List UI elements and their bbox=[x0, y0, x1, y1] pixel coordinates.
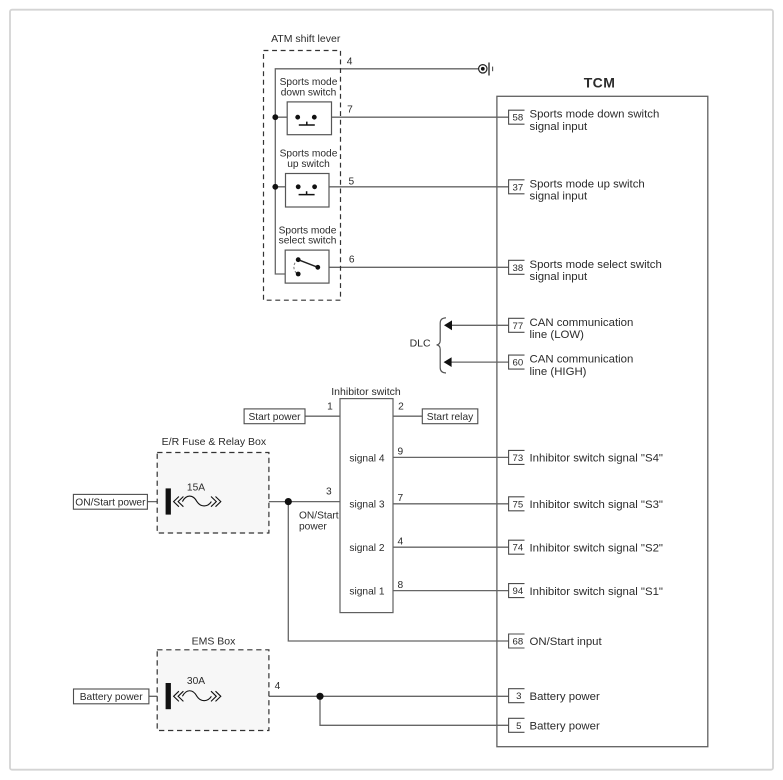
svg-text:3: 3 bbox=[326, 487, 332, 498]
svg-text:38: 38 bbox=[513, 263, 524, 274]
svg-text:CAN communication: CAN communication bbox=[530, 317, 634, 329]
svg-text:Sports mode select switch: Sports mode select switch bbox=[530, 259, 662, 271]
svg-text:signal 4: signal 4 bbox=[349, 453, 384, 464]
svg-text:Battery power: Battery power bbox=[80, 692, 143, 703]
svg-text:68: 68 bbox=[513, 637, 524, 648]
svg-text:2: 2 bbox=[398, 402, 404, 413]
svg-text:Inhibitor switch signal "S4": Inhibitor switch signal "S4" bbox=[530, 453, 663, 465]
svg-text:8: 8 bbox=[398, 580, 404, 591]
svg-text:line (LOW): line (LOW) bbox=[530, 329, 585, 341]
svg-text:Inhibitor switch: Inhibitor switch bbox=[331, 386, 401, 398]
svg-text:3: 3 bbox=[516, 691, 521, 702]
svg-text:down switch: down switch bbox=[281, 88, 337, 99]
svg-text:Sports mode: Sports mode bbox=[279, 225, 337, 236]
svg-text:9: 9 bbox=[398, 447, 404, 458]
svg-text:CAN communication: CAN communication bbox=[530, 354, 634, 366]
svg-text:ON/Start: ON/Start bbox=[299, 511, 339, 522]
svg-text:Inhibitor switch signal "S1": Inhibitor switch signal "S1" bbox=[530, 586, 663, 598]
svg-text:Sports mode: Sports mode bbox=[280, 149, 338, 160]
svg-text:30A: 30A bbox=[187, 676, 205, 687]
svg-text:Start relay: Start relay bbox=[427, 412, 474, 423]
svg-text:94: 94 bbox=[513, 586, 524, 597]
svg-text:4: 4 bbox=[347, 56, 353, 67]
svg-text:37: 37 bbox=[513, 182, 524, 193]
svg-text:Sports mode down switch: Sports mode down switch bbox=[530, 109, 660, 121]
svg-text:up switch: up switch bbox=[287, 159, 329, 170]
svg-text:60: 60 bbox=[513, 358, 524, 369]
svg-text:Sports mode up switch: Sports mode up switch bbox=[530, 178, 645, 190]
svg-text:58: 58 bbox=[513, 113, 524, 124]
svg-text:Start power: Start power bbox=[248, 412, 301, 423]
svg-text:ON/Start input: ON/Start input bbox=[530, 636, 603, 648]
svg-text:signal 2: signal 2 bbox=[349, 543, 384, 554]
svg-text:ATM shift lever: ATM shift lever bbox=[271, 33, 341, 45]
svg-text:DLC: DLC bbox=[410, 338, 431, 350]
svg-text:line (HIGH): line (HIGH) bbox=[530, 366, 587, 378]
svg-text:Battery power: Battery power bbox=[530, 721, 600, 733]
svg-text:select switch: select switch bbox=[279, 236, 337, 247]
svg-text:5: 5 bbox=[349, 176, 355, 187]
svg-text:TCM: TCM bbox=[584, 74, 616, 90]
svg-text:power: power bbox=[299, 522, 327, 533]
svg-text:7: 7 bbox=[347, 105, 353, 116]
svg-text:E/R Fuse & Relay Box: E/R Fuse & Relay Box bbox=[162, 436, 267, 448]
svg-text:75: 75 bbox=[513, 499, 524, 510]
svg-text:5: 5 bbox=[516, 721, 521, 732]
svg-text:77: 77 bbox=[513, 321, 524, 332]
svg-text:74: 74 bbox=[513, 543, 524, 554]
svg-text:EMS Box: EMS Box bbox=[192, 635, 237, 647]
svg-text:signal 3: signal 3 bbox=[349, 500, 384, 511]
svg-text:signal input: signal input bbox=[530, 191, 588, 203]
svg-text:signal input: signal input bbox=[530, 121, 588, 133]
svg-text:Battery power: Battery power bbox=[530, 691, 600, 703]
svg-text:1: 1 bbox=[327, 402, 333, 413]
svg-text:Inhibitor switch signal "S3": Inhibitor switch signal "S3" bbox=[530, 499, 663, 511]
svg-text:ON/Start power: ON/Start power bbox=[75, 498, 146, 509]
svg-text:signal 1: signal 1 bbox=[349, 587, 384, 598]
svg-text:4: 4 bbox=[275, 681, 281, 692]
svg-text:signal input: signal input bbox=[530, 271, 588, 283]
svg-text:7: 7 bbox=[398, 493, 404, 504]
svg-text:15A: 15A bbox=[187, 482, 205, 493]
svg-text:4: 4 bbox=[398, 537, 404, 548]
svg-text:Inhibitor switch signal "S2": Inhibitor switch signal "S2" bbox=[530, 542, 663, 554]
svg-text:73: 73 bbox=[513, 453, 524, 464]
svg-text:6: 6 bbox=[349, 255, 355, 266]
